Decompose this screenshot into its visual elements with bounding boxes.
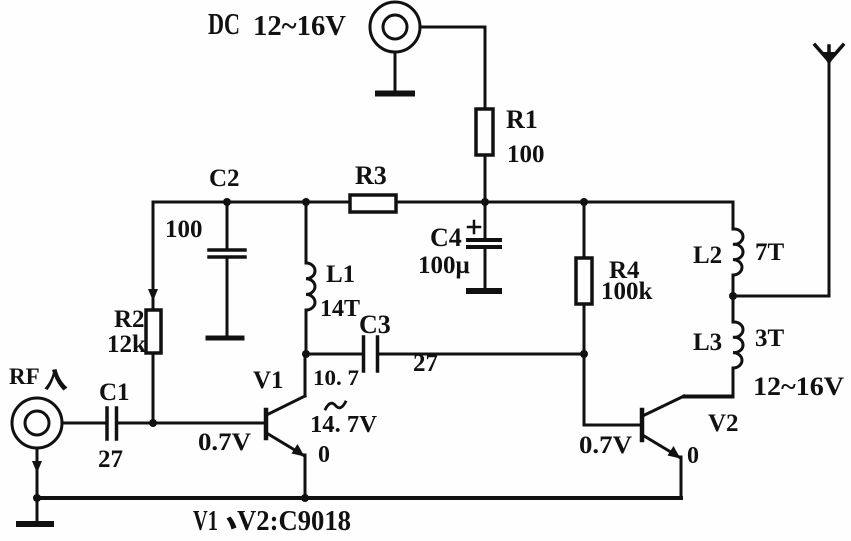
wire jack to R1 xyxy=(420,27,485,109)
label R1 xyxy=(506,105,538,134)
svg-text:C2: C2 xyxy=(209,165,240,192)
label 10.7 (V1 collector) xyxy=(313,365,359,390)
node V1 emitter on rail xyxy=(301,494,309,502)
caption V1,V2:C9018 xyxy=(193,505,351,537)
svg-text:V1: V1 xyxy=(253,367,284,394)
label V2 xyxy=(708,410,739,437)
label 27 (C3 value) xyxy=(413,350,438,377)
svg-text:0: 0 xyxy=(687,443,699,469)
wire bottom rail xyxy=(37,496,681,500)
node R1/C4 xyxy=(481,198,489,206)
transistor V1 xyxy=(266,354,305,498)
svg-text:12~16V: 12~16V xyxy=(253,10,346,42)
arrow on left rail xyxy=(148,289,158,301)
label L3 xyxy=(693,329,722,356)
node L2/L3 junction xyxy=(729,292,737,300)
resistor R4 xyxy=(576,202,592,354)
svg-text:0.7V: 0.7V xyxy=(198,429,251,456)
connector RF input jack xyxy=(12,398,62,448)
label 100u xyxy=(418,252,470,279)
svg-text:V1: V1 xyxy=(193,505,218,537)
label 12k xyxy=(107,331,146,358)
connector DC jack xyxy=(370,2,420,52)
svg-text:0: 0 xyxy=(318,442,330,468)
wire RF jack to C1 xyxy=(62,422,107,425)
label C1 xyxy=(99,379,130,406)
node L1 bottom xyxy=(302,350,310,358)
wire top rail right xyxy=(396,201,733,204)
svg-text:100: 100 xyxy=(165,216,203,243)
label 7T xyxy=(755,239,785,266)
svg-text:0.7V: 0.7V xyxy=(579,432,632,459)
label 100 (C2 value) xyxy=(165,216,203,243)
capacitor C4 (electrolytic) xyxy=(468,202,500,291)
wire left rail upper xyxy=(152,202,155,310)
capacitor C2 xyxy=(208,202,245,338)
wire mid line right (C3 to R4 bottom) xyxy=(378,353,584,356)
inductor L2 xyxy=(733,202,743,296)
label L1 xyxy=(326,261,355,288)
label C3 xyxy=(359,310,391,339)
label 3T xyxy=(755,325,785,352)
antenna xyxy=(815,45,843,65)
ground (under DC jack) xyxy=(378,52,412,94)
label 0.7V (V1 base) xyxy=(198,429,251,456)
wire R1 to rail xyxy=(484,155,487,202)
svg-text:R1: R1 xyxy=(506,105,538,134)
svg-text:C3: C3 xyxy=(359,310,391,339)
svg-text:R2: R2 xyxy=(114,306,145,333)
label R4 xyxy=(609,257,640,284)
wire R4 bottom to V2 base xyxy=(584,354,640,425)
svg-text:L3: L3 xyxy=(693,329,722,356)
label 14T xyxy=(320,296,360,322)
svg-text:R3: R3 xyxy=(355,161,387,190)
svg-text:14. 7V: 14. 7V xyxy=(310,412,378,438)
ground (RF jack) xyxy=(19,448,51,524)
glyph ideographic comma xyxy=(227,517,237,530)
node R4 top xyxy=(580,198,588,206)
capacitor C1 xyxy=(107,408,117,439)
label C4 xyxy=(430,223,462,252)
node R4 bottom xyxy=(580,350,588,358)
node C1/R2 junction xyxy=(149,419,157,427)
wire C1 to V1 base xyxy=(117,422,264,425)
wire top rail left xyxy=(153,201,350,204)
resistor R1 xyxy=(476,109,493,155)
resistor R2 xyxy=(146,310,161,353)
label 0.7V (V2 base) xyxy=(579,432,632,459)
svg-text:27: 27 xyxy=(98,446,123,473)
inductor L3 xyxy=(684,296,743,397)
capacitor C3 xyxy=(364,337,378,371)
label RF in xyxy=(9,364,40,389)
wire left rail lower xyxy=(152,353,155,423)
label R3 xyxy=(355,161,387,190)
svg-text:100: 100 xyxy=(507,141,545,168)
label tilde xyxy=(326,402,346,409)
node L1 top xyxy=(302,198,310,206)
glyph ru (Chinese enter) xyxy=(45,369,68,391)
svg-text:100μ: 100μ xyxy=(418,252,470,279)
svg-text:L1: L1 xyxy=(326,261,355,288)
label 0 (V2 emitter) xyxy=(687,443,699,469)
wire mid line left (L1 bottom to C3) xyxy=(306,353,363,356)
resistor R3 xyxy=(350,195,396,212)
svg-text:L2: L2 xyxy=(693,242,722,269)
label 12~16V (V2 collector) xyxy=(753,372,844,401)
label C2 xyxy=(209,165,240,192)
svg-text:C1: C1 xyxy=(99,379,130,406)
label 100k xyxy=(601,278,653,305)
svg-text:C4: C4 xyxy=(430,223,462,252)
svg-text:V2: V2 xyxy=(708,410,739,437)
svg-text:10. 7: 10. 7 xyxy=(313,365,359,390)
svg-text:DC: DC xyxy=(208,6,240,41)
svg-text:100k: 100k xyxy=(601,278,653,305)
label 0 (V1 emitter) xyxy=(318,442,330,468)
label 100 (R1 value) xyxy=(507,141,545,168)
label 14.7V xyxy=(310,412,378,438)
svg-text:V2:C9018: V2:C9018 xyxy=(237,505,351,537)
label V1 xyxy=(253,367,284,394)
label DC 12~16V xyxy=(208,6,346,42)
svg-text:12k: 12k xyxy=(107,331,146,358)
transistor V2 xyxy=(642,396,733,498)
inductor L1 xyxy=(306,202,315,354)
wire antenna feed xyxy=(733,61,829,296)
svg-text:7T: 7T xyxy=(755,239,785,266)
label 27 (C1 value) xyxy=(98,446,123,473)
svg-text:3T: 3T xyxy=(755,325,785,352)
label R2 xyxy=(114,306,145,333)
svg-text:12~16V: 12~16V xyxy=(753,372,844,401)
node C2 top xyxy=(223,198,231,206)
svg-text:RF: RF xyxy=(9,364,40,389)
svg-text:14T: 14T xyxy=(320,296,360,322)
node bottom rail left xyxy=(33,494,41,502)
arrow on RF ground wire xyxy=(32,461,42,473)
label L2 xyxy=(693,242,722,269)
